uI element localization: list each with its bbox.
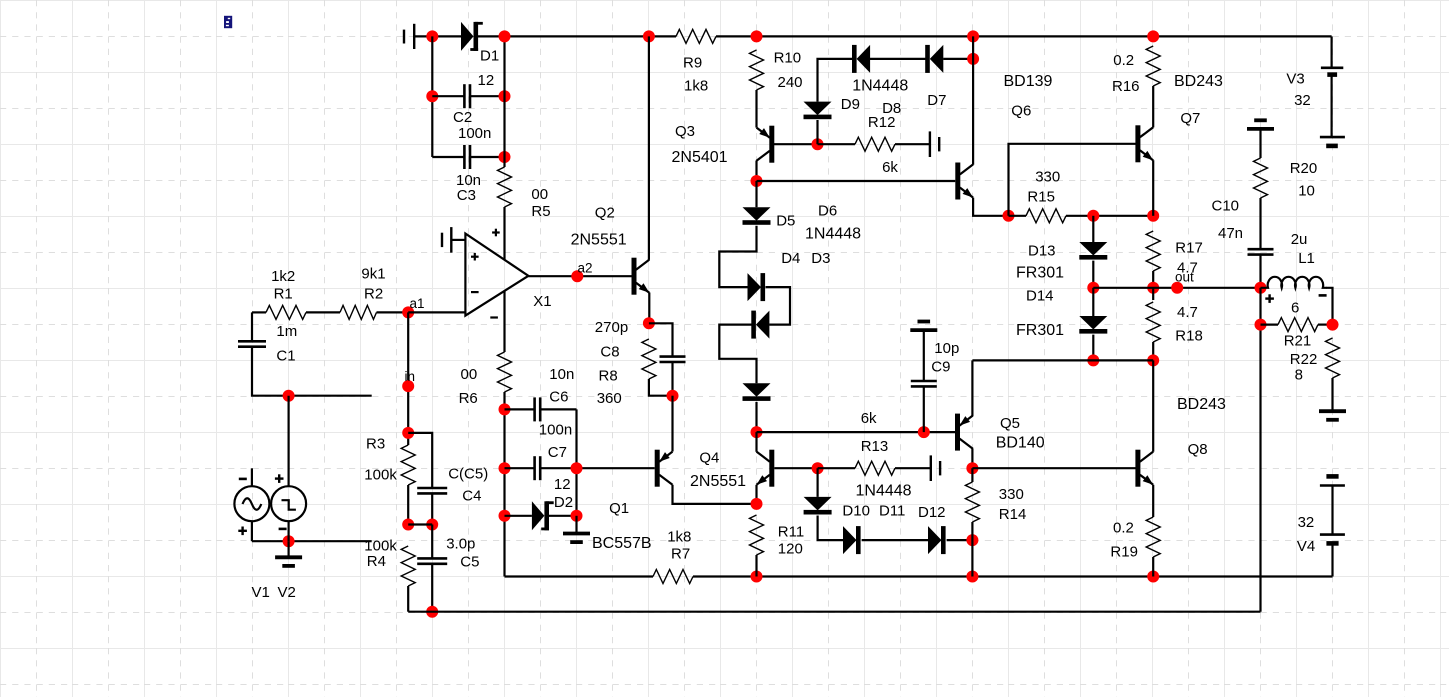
svg-text:D4: D4 xyxy=(781,250,800,267)
svg-text:R5: R5 xyxy=(531,203,550,220)
svg-text:330: 330 xyxy=(1035,169,1060,186)
wire Q4 collector xyxy=(755,432,757,452)
svg-text:2N5551: 2N5551 xyxy=(571,232,627,249)
node out marker xyxy=(1171,282,1183,294)
wire a1 to op-amp - input xyxy=(408,311,465,313)
wire C6C7 right column xyxy=(575,409,577,515)
svg-text:1N4448: 1N4448 xyxy=(852,78,908,95)
wire D2 right lead xyxy=(549,515,577,517)
wire out column xyxy=(1259,288,1261,612)
node out junction xyxy=(1255,282,1267,294)
wire R12 left lead xyxy=(818,143,856,145)
svg-text:D6: D6 xyxy=(818,203,837,220)
svg-text:Q6: Q6 xyxy=(1011,103,1031,120)
svg-text:X1: X1 xyxy=(533,293,551,310)
svg-text:C9: C9 xyxy=(931,359,950,376)
junction C7 left xyxy=(499,462,511,474)
svg-text:1N4448: 1N4448 xyxy=(805,226,861,243)
wire Q1 collector xyxy=(673,485,757,504)
wire C7 left lead xyxy=(505,467,535,469)
wire D14 bottom lead xyxy=(1092,335,1094,361)
wire Q5 emitter riser xyxy=(971,360,973,416)
svg-text:10: 10 xyxy=(1298,183,1315,200)
svg-text:D7: D7 xyxy=(927,92,946,109)
wire Q5 collector xyxy=(971,449,973,469)
svg-text:BD140: BD140 xyxy=(996,435,1045,452)
wire C9 upper lead xyxy=(923,330,925,381)
svg-text:BC557B: BC557B xyxy=(592,535,652,552)
svg-text:D12: D12 xyxy=(918,504,946,521)
wire D12 to R14 xyxy=(947,539,973,541)
svg-text:V4: V4 xyxy=(1297,538,1315,555)
capacitor C8 xyxy=(660,355,686,358)
svg-text:00: 00 xyxy=(461,366,478,383)
svg-text:1k8: 1k8 xyxy=(684,78,708,95)
wire C5 bottom xyxy=(431,564,433,612)
diode D3 xyxy=(756,311,770,339)
junction D9 R12 xyxy=(812,138,824,150)
svg-text:C4: C4 xyxy=(462,488,481,505)
svg-text:D2: D2 xyxy=(554,494,573,511)
wire C8 bottom xyxy=(671,362,673,396)
wire bottom rail 2 xyxy=(408,611,1260,613)
capacitor C6 xyxy=(533,397,536,421)
battery V4 xyxy=(1326,474,1338,479)
resistor R17 xyxy=(1146,231,1160,271)
wire R1 row left corner xyxy=(252,311,266,313)
svg-text:FR301: FR301 xyxy=(1016,265,1064,282)
source V1 sine xyxy=(234,486,269,521)
ground below R22 xyxy=(1319,409,1346,413)
wire C6 left lead xyxy=(505,408,535,410)
wire V2 riser xyxy=(288,396,290,487)
svg-text:32: 32 xyxy=(1294,92,1311,109)
L1 - sign xyxy=(1319,294,1327,297)
wire D13 top lead xyxy=(1092,216,1094,242)
svg-text:C6: C6 xyxy=(549,389,568,406)
svg-text:100k: 100k xyxy=(364,538,397,555)
op-amp V+ pin mark xyxy=(492,231,500,233)
svg-text:Q3: Q3 xyxy=(675,123,695,140)
wire Q8 base xyxy=(972,467,1135,469)
svg-text:Q7: Q7 xyxy=(1180,110,1200,127)
junction R17 out xyxy=(1147,282,1159,294)
resistor R7 xyxy=(653,570,693,584)
junction D1 rail xyxy=(499,30,511,42)
wire R21 lead right xyxy=(1318,324,1333,326)
L1 + sign xyxy=(1265,297,1274,299)
wire R14 top xyxy=(971,468,973,482)
resistor R18 xyxy=(1146,302,1160,342)
svg-text:V2: V2 xyxy=(278,584,296,601)
junction R21 left xyxy=(1255,319,1267,331)
svg-text:32: 32 xyxy=(1298,514,1315,531)
svg-text:D9: D9 xyxy=(841,96,860,113)
wire D10 top lead xyxy=(816,468,818,497)
ground below V1 V2 xyxy=(275,555,302,559)
svg-text:R2: R2 xyxy=(364,286,383,303)
transistor Q2 xyxy=(632,258,637,295)
svg-text:1m: 1m xyxy=(276,323,297,340)
resistor R12 xyxy=(855,137,895,151)
junction D14 bottom xyxy=(1087,354,1099,366)
wire D2 ground stub xyxy=(575,516,577,533)
wire C6 right lead xyxy=(540,408,576,410)
wire D1 node down to C2/C3 xyxy=(503,36,505,167)
svg-text:R15: R15 xyxy=(1027,189,1055,206)
svg-text:BD243: BD243 xyxy=(1174,73,1223,90)
svg-text:2u: 2u xyxy=(1291,231,1308,248)
wire V2 bottom stub xyxy=(288,521,290,541)
wire C10 to out xyxy=(1259,255,1261,288)
blue toolbar icon xyxy=(224,16,232,28)
svg-text:BD243: BD243 xyxy=(1177,396,1226,413)
wire C9 lower lead xyxy=(923,387,925,433)
svg-text:C7: C7 xyxy=(548,444,567,461)
probe I at op-amp + input xyxy=(450,227,452,253)
diode D7 xyxy=(930,45,944,73)
node a1 xyxy=(402,306,414,318)
svg-text:3.0p: 3.0p xyxy=(446,536,475,553)
svg-text:C1: C1 xyxy=(276,348,295,365)
wire left column C2C3 xyxy=(431,36,433,157)
junction C3 right xyxy=(499,151,511,163)
diode D10 xyxy=(804,497,832,511)
V1 + sign xyxy=(238,530,247,532)
wire C2 right lead xyxy=(470,95,504,97)
resistor R3 xyxy=(401,445,415,485)
node top B xyxy=(643,30,655,42)
inductor L1 xyxy=(1261,277,1327,288)
svg-text:R22: R22 xyxy=(1290,351,1318,368)
resistor R5 xyxy=(498,167,512,207)
svg-text:8: 8 xyxy=(1295,367,1303,384)
svg-text:240: 240 xyxy=(778,74,803,91)
capacitor C4 xyxy=(417,487,447,490)
svg-text:R10: R10 xyxy=(774,50,802,67)
svg-text:Q5: Q5 xyxy=(1000,415,1020,432)
svg-text:R3: R3 xyxy=(366,436,385,453)
svg-text:R19: R19 xyxy=(1110,544,1138,561)
wire D6 bottom lead xyxy=(755,402,757,432)
svg-text:R18: R18 xyxy=(1175,328,1203,345)
junction Q5c R14 Q8b xyxy=(966,462,978,474)
svg-text:D10: D10 xyxy=(842,503,870,520)
resistor R2 xyxy=(340,305,377,319)
wire Q2 collector xyxy=(648,36,650,260)
junction 6k row left xyxy=(751,426,763,438)
junction R13 D10 xyxy=(812,462,824,474)
svg-text:R17: R17 xyxy=(1175,240,1203,257)
svg-text:6: 6 xyxy=(1291,300,1299,317)
junction R19 rail xyxy=(1147,571,1159,583)
junction R3 top xyxy=(402,427,414,439)
svg-text:6k: 6k xyxy=(882,159,898,176)
junction Q2e R8 C8 xyxy=(643,317,655,329)
wire D9 bottom lead xyxy=(816,120,818,144)
svg-text:R1: R1 xyxy=(274,286,293,303)
svg-text:C10: C10 xyxy=(1212,198,1240,215)
wire R14 bottom xyxy=(971,522,973,577)
junction D13 D14 xyxy=(1087,282,1099,294)
svg-text:120: 120 xyxy=(778,541,803,558)
svg-text:R4: R4 xyxy=(367,553,386,570)
wire op-amp V- to R6 xyxy=(503,290,505,352)
node top E xyxy=(1147,30,1159,42)
resistor R22 xyxy=(1326,338,1340,378)
probe I at R13 xyxy=(930,455,932,481)
resistor R4 xyxy=(401,546,415,586)
capacitor C2 xyxy=(463,84,466,108)
battery V3 xyxy=(1321,67,1343,70)
capacitor C7 xyxy=(533,456,536,480)
transistor Q4 xyxy=(769,450,774,487)
wire Q2 emitter xyxy=(648,293,650,324)
wire D10 corner xyxy=(818,516,843,541)
wire R13 left lead xyxy=(818,467,855,469)
node top D xyxy=(967,30,979,42)
svg-text:270p: 270p xyxy=(595,319,628,336)
wire V3 top lead xyxy=(1330,36,1332,66)
junction R14 rail xyxy=(966,571,978,583)
junction R15 left xyxy=(1003,210,1015,222)
svg-text:D11: D11 xyxy=(879,503,905,520)
inverted ground above C9 xyxy=(910,328,937,332)
svg-text:R20: R20 xyxy=(1290,160,1318,177)
svg-text:10n: 10n xyxy=(549,366,574,383)
capacitor C9 xyxy=(911,380,937,383)
wire Q7 base row xyxy=(1009,144,1136,216)
wire probe to + input xyxy=(452,239,465,241)
wire R15 lead xyxy=(1009,215,1027,217)
wire V4 bottom lead xyxy=(1331,543,1333,576)
svg-text:12: 12 xyxy=(554,476,571,493)
wire top rail seg1 xyxy=(414,35,461,37)
transistor Q7 xyxy=(1135,125,1140,162)
resistor R10 xyxy=(750,50,764,90)
svg-text:0.2: 0.2 xyxy=(1113,52,1134,69)
svg-text:C(C5): C(C5) xyxy=(448,466,488,483)
junction Q4e Q1c R11 xyxy=(751,498,763,510)
junction C2 right xyxy=(499,90,511,102)
svg-text:1k8: 1k8 xyxy=(667,529,691,546)
resistor R6 xyxy=(498,352,512,392)
svg-text:10p: 10p xyxy=(934,340,959,357)
wire D8-D7 xyxy=(870,58,926,60)
resistor R11 xyxy=(750,515,764,555)
wire R7 row left xyxy=(505,575,654,577)
svg-text:L1: L1 xyxy=(1298,250,1315,267)
wire C1 top lead xyxy=(251,312,253,341)
capacitor C5 xyxy=(417,557,447,560)
wire gnd to R20 xyxy=(1259,129,1261,158)
wire C4 bottom xyxy=(431,493,433,524)
svg-text:in: in xyxy=(405,369,416,384)
svg-text:R16: R16 xyxy=(1112,78,1140,95)
resistor R1 xyxy=(266,305,306,319)
svg-text:00: 00 xyxy=(531,186,548,203)
wire D11-D12 xyxy=(862,539,928,541)
wire V1 bottom xyxy=(251,521,253,541)
resistor R13 xyxy=(855,461,895,475)
svg-text:R21: R21 xyxy=(1284,333,1312,350)
resistor R16 xyxy=(1146,46,1160,86)
junction C5 rail xyxy=(426,606,438,618)
wire ground stub V1V2 xyxy=(288,541,290,556)
wire C8 branch top xyxy=(649,323,673,356)
junction R17 top xyxy=(1147,210,1159,222)
diode D5 xyxy=(743,207,771,221)
wire bottom rail 1 xyxy=(757,575,1333,577)
wire R3R4-C4C5 link xyxy=(408,523,432,525)
junction Q3c Q6 base xyxy=(751,175,763,187)
wire D7 to node xyxy=(943,58,973,60)
wire C1 bottom lead xyxy=(252,347,372,396)
junction C2 left xyxy=(426,90,438,102)
wire R20 to C10 xyxy=(1259,198,1261,249)
svg-text:FR301: FR301 xyxy=(1016,322,1064,339)
V2 - sign xyxy=(279,528,287,531)
junction R8 C8 Q1e xyxy=(667,390,679,402)
wire D14 top lead xyxy=(1092,288,1094,316)
wire R1-R2 xyxy=(306,311,340,313)
wire R4 bottom corner xyxy=(407,586,409,612)
wire R2 to node a1 xyxy=(377,311,409,313)
inverted ground above R20 xyxy=(1247,127,1274,131)
svg-text:Q8: Q8 xyxy=(1188,441,1208,458)
diode D4 xyxy=(748,273,762,301)
source V2 square xyxy=(271,486,306,521)
wire D5 to D4 jog xyxy=(719,226,756,287)
junction C1/V2 xyxy=(283,390,295,402)
diode D12 xyxy=(928,526,942,554)
wire R21 lead left xyxy=(1261,324,1279,326)
wire D9 up and over xyxy=(818,59,854,102)
svg-text:R6: R6 xyxy=(459,390,478,407)
svg-text:1N4448: 1N4448 xyxy=(856,483,912,500)
resistor R21 xyxy=(1278,318,1318,332)
probe I at top-left xyxy=(403,30,405,44)
wire R18 bottom xyxy=(1152,342,1154,360)
wire D4 to D3 jog xyxy=(766,287,791,325)
svg-text:2N5401: 2N5401 xyxy=(672,149,728,166)
wire sources bottom row xyxy=(252,540,372,542)
op-amp - input symbol xyxy=(471,291,479,293)
wire Q8 emitter xyxy=(1152,485,1154,517)
wire Q6 base xyxy=(757,180,956,182)
transistor Q8 xyxy=(1135,450,1140,487)
wire R13 right lead xyxy=(895,467,931,469)
resistor R9 xyxy=(676,29,716,43)
wire R8 bottom xyxy=(649,379,673,396)
wire Q3 base xyxy=(774,143,818,145)
svg-text:D5: D5 xyxy=(776,213,795,230)
wire R19 bottom xyxy=(1152,557,1154,577)
wire R15 right xyxy=(1066,215,1153,217)
op-amp X1 xyxy=(465,234,528,316)
svg-text:4.7: 4.7 xyxy=(1177,304,1198,321)
wire D3 to D6 jog xyxy=(719,325,756,384)
node top C xyxy=(751,30,763,42)
wire D5 top lead xyxy=(755,181,757,207)
transistor Q1 xyxy=(655,450,660,487)
svg-text:0.2: 0.2 xyxy=(1113,520,1134,537)
svg-text:R9: R9 xyxy=(683,55,702,72)
op-amp V- pin mark xyxy=(490,316,498,318)
svg-text:out: out xyxy=(1175,270,1194,285)
probe I at R12 xyxy=(929,131,931,157)
junction R6 C6 xyxy=(499,403,511,415)
wire Q4 base xyxy=(774,467,817,469)
capacitor C10 xyxy=(1248,248,1274,251)
junction C4 bottom xyxy=(426,519,438,531)
resistor R15 xyxy=(1026,209,1066,223)
wire top rail seg2 xyxy=(478,35,676,37)
junction sources ground xyxy=(283,535,295,547)
wire Q7 emitter xyxy=(1152,160,1154,216)
junction D13 top xyxy=(1087,210,1099,222)
svg-text:C2: C2 xyxy=(453,109,472,126)
svg-text:a1: a1 xyxy=(410,296,425,311)
svg-text:Q4: Q4 xyxy=(699,450,719,467)
capacitor C3 xyxy=(463,145,466,169)
wire L1 right corner xyxy=(1327,288,1333,325)
capacitor C1 xyxy=(238,340,266,343)
wire C3 left lead xyxy=(432,156,464,158)
wire C3 right lead xyxy=(470,156,504,158)
svg-text:9k1: 9k1 xyxy=(361,266,385,283)
svg-text:R13: R13 xyxy=(861,438,889,455)
svg-text:100n: 100n xyxy=(539,422,572,439)
svg-text:2N5551: 2N5551 xyxy=(690,473,746,490)
transistor Q3 xyxy=(769,126,774,163)
resistor R14 xyxy=(965,482,979,522)
wire D2 left lead xyxy=(505,515,532,517)
diode D13 xyxy=(1079,242,1107,256)
junction C9 bottom xyxy=(918,426,930,438)
junction D12 R14 xyxy=(966,534,978,546)
svg-text:6k: 6k xyxy=(861,410,877,427)
wire Q6 emitter corner xyxy=(973,198,1008,216)
resistor R20 xyxy=(1254,158,1268,198)
junction D2 right xyxy=(571,510,583,522)
diode D8 xyxy=(857,45,871,73)
wire C7 right lead xyxy=(540,467,576,469)
wire Q1 base xyxy=(577,467,655,469)
wire R22 to ground xyxy=(1331,378,1333,410)
wire R18 top xyxy=(1152,288,1154,300)
wire top rail seg3 xyxy=(716,35,1332,37)
svg-text:C3: C3 xyxy=(457,187,476,204)
wire R12 right lead xyxy=(895,143,930,145)
ground below D2 xyxy=(563,532,590,536)
V1 - sign xyxy=(239,478,247,481)
svg-text:R7: R7 xyxy=(671,546,690,563)
wire left column down xyxy=(503,392,505,577)
wire op-amp output to Q2 xyxy=(528,275,631,277)
V2 + sign xyxy=(275,477,284,479)
diode D11 xyxy=(843,526,857,554)
wire Q3 collector xyxy=(755,161,757,182)
svg-text:100n: 100n xyxy=(458,125,491,142)
diode D9 xyxy=(804,102,832,116)
svg-text:D13: D13 xyxy=(1028,243,1056,260)
junction D2 left xyxy=(499,510,511,522)
svg-text:1k2: 1k2 xyxy=(271,268,295,285)
svg-text:BD139: BD139 xyxy=(1004,73,1053,90)
zener diode D2 xyxy=(532,501,545,530)
junction R18 Q8c xyxy=(1147,354,1159,366)
